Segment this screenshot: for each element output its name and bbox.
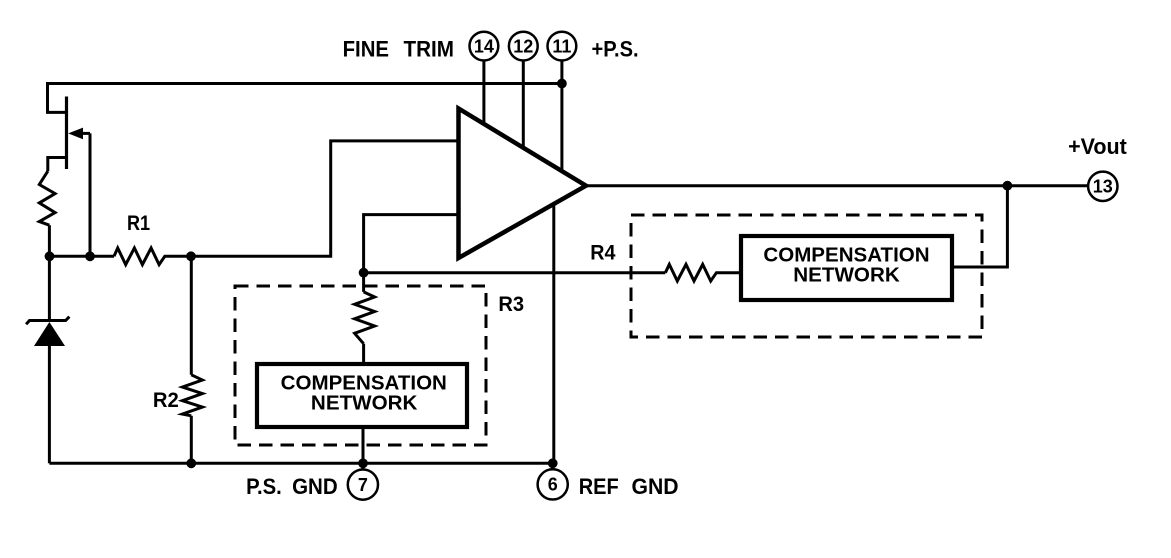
compensation network box 2: [741, 236, 952, 300]
node ref gnd bottom: [548, 458, 558, 468]
svg-text:NETWORK: NETWORK: [311, 393, 418, 415]
wire bottom rail: [49, 462, 552, 465]
wire top supply rail: [48, 84, 562, 113]
svg-text:NETWORK: NETWORK: [793, 265, 900, 287]
svg-text:GND: GND: [292, 474, 338, 499]
svg-text:R2: R2: [153, 388, 179, 412]
svg-text:R1: R1: [127, 211, 150, 235]
wire pin 7 stub: [361, 463, 364, 469]
resistor R3: [355, 273, 375, 362]
resistor R4: [665, 264, 739, 281]
dashed box compensation network 2: [631, 215, 982, 337]
svg-text:+P.S.: +P.S.: [592, 37, 639, 62]
wire ref gnd (from op-amp bottom down): [552, 204, 555, 463]
node compensation junction: [359, 268, 369, 278]
node gate junction: [85, 251, 95, 261]
wire output: [586, 184, 1088, 187]
resistor R2: [182, 256, 202, 463]
node R1 right: [186, 251, 196, 261]
pin 13 circle: [1088, 172, 1117, 201]
pin 11 circle: [548, 32, 577, 61]
svg-text:P.S.: P.S.: [246, 474, 282, 499]
dashed box R3 network: [235, 286, 486, 445]
node R2 bottom: [186, 458, 196, 468]
pin 7 circle: [348, 470, 378, 500]
svg-text:COMPENSATION: COMPENSATION: [763, 245, 929, 267]
svg-text:11: 11: [552, 36, 571, 56]
pin 14 circle: [470, 32, 499, 61]
node left rail junction: [45, 251, 55, 261]
svg-text:R3: R3: [498, 292, 524, 316]
resistor (source resistor, unlabeled): [39, 171, 55, 225]
wire comp box 1 to bottom rail: [362, 429, 365, 463]
op-amp U1: [459, 109, 587, 259]
wire non-inverting input: [364, 215, 459, 273]
svg-text:+Vout: +Vout: [1068, 134, 1127, 159]
wire pin 11: [560, 61, 563, 172]
wire R4 feed (junction to compensation network 2): [364, 271, 666, 274]
svg-text:R4: R4: [590, 241, 615, 265]
svg-text:13: 13: [1093, 177, 1113, 197]
svg-text:TRIM: TRIM: [404, 37, 455, 62]
wire gate lead down: [89, 133, 92, 256]
wire source resistor to node: [48, 225, 51, 256]
svg-text:REF: REF: [579, 474, 619, 499]
compensation network box 1: [257, 364, 467, 427]
svg-text:12: 12: [513, 36, 533, 56]
wire pin 6 stub: [551, 463, 554, 469]
node P.S. GND: [358, 458, 368, 468]
svg-text:FINE: FINE: [343, 37, 389, 62]
transistor Q1 (JFET): [48, 97, 90, 172]
pin 6 circle: [538, 469, 568, 499]
wire node to gate junction: [49, 255, 114, 258]
node output junction: [1003, 181, 1013, 191]
wire inverting input (from R1 node up to op-amp): [191, 141, 459, 256]
svg-text:GND: GND: [632, 474, 679, 499]
node pin 11 on supply rail: [557, 79, 567, 89]
wire pin 12: [522, 61, 525, 148]
pin 12 circle: [509, 32, 538, 61]
wire comp box 2 output to Vout node: [954, 186, 1007, 267]
svg-text:14: 14: [474, 36, 494, 56]
wire pin 14: [482, 61, 485, 124]
svg-text:6: 6: [548, 475, 558, 495]
svg-text:COMPENSATION: COMPENSATION: [281, 373, 447, 395]
svg-text:7: 7: [358, 475, 368, 495]
zener diode D1: [26, 256, 69, 463]
resistor R1: [114, 248, 191, 265]
